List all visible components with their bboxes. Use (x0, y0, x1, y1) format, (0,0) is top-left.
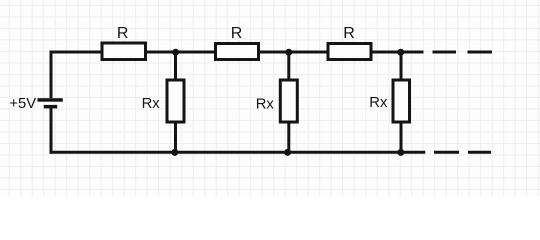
svg-text:R: R (231, 25, 243, 42)
svg-text:+5V: +5V (9, 96, 36, 112)
svg-text:R: R (117, 25, 129, 42)
svg-text:Rx: Rx (256, 97, 275, 113)
svg-text:Rx: Rx (142, 96, 161, 112)
svg-text:R: R (343, 25, 355, 42)
svg-text:Rx: Rx (369, 95, 388, 111)
